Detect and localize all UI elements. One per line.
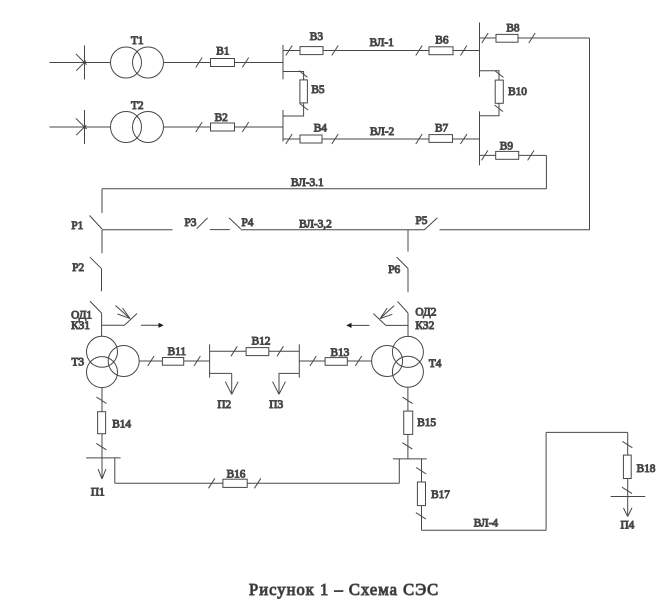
svg-text:В11: В11	[168, 346, 186, 358]
svg-text:П4: П4	[621, 519, 635, 531]
svg-text:ВЛ-3.1: ВЛ-3.1	[291, 177, 324, 189]
svg-text:ВЛ-1: ВЛ-1	[370, 37, 394, 49]
svg-text:В6: В6	[435, 34, 449, 46]
svg-text:КЗ2: КЗ2	[415, 320, 434, 332]
svg-text:В17: В17	[431, 489, 450, 501]
svg-text:Р2: Р2	[72, 262, 84, 274]
svg-text:Рисунок 1 – Схема СЭС: Рисунок 1 – Схема СЭС	[249, 580, 439, 599]
svg-text:В8: В8	[506, 23, 520, 35]
svg-text:В16: В16	[227, 469, 246, 481]
svg-text:П2: П2	[217, 399, 231, 411]
svg-text:Р1: Р1	[71, 220, 83, 232]
svg-text:В5: В5	[311, 84, 325, 96]
svg-text:Т2: Т2	[131, 100, 144, 112]
svg-text:ВЛ-2: ВЛ-2	[370, 126, 395, 138]
svg-text:Т3: Т3	[72, 356, 85, 368]
svg-text:КЗ1: КЗ1	[71, 320, 90, 332]
svg-text:В14: В14	[112, 419, 131, 431]
svg-text:В7: В7	[435, 123, 449, 135]
svg-text:Р6: Р6	[388, 264, 400, 276]
svg-text:Р4: Р4	[242, 217, 254, 229]
svg-text:Т4: Т4	[429, 358, 442, 370]
svg-text:В12: В12	[252, 336, 271, 348]
svg-text:В15: В15	[417, 417, 436, 429]
svg-text:В13: В13	[331, 347, 350, 359]
svg-text:В10: В10	[508, 86, 527, 98]
svg-text:ВЛ-3,2: ВЛ-3,2	[299, 219, 332, 231]
svg-text:В3: В3	[310, 31, 324, 43]
svg-text:П3: П3	[269, 399, 283, 411]
svg-text:Т1: Т1	[131, 35, 144, 47]
svg-text:Р5: Р5	[416, 215, 428, 227]
svg-text:В4: В4	[314, 123, 328, 135]
svg-text:П1: П1	[91, 487, 105, 499]
svg-text:ВЛ-4: ВЛ-4	[474, 518, 499, 530]
svg-text:В1: В1	[216, 46, 229, 58]
svg-text:ОД2: ОД2	[415, 307, 436, 319]
svg-text:Р3: Р3	[185, 217, 197, 229]
svg-text:В9: В9	[500, 141, 514, 153]
svg-text:В18: В18	[637, 463, 656, 475]
svg-text:В2: В2	[215, 112, 229, 124]
